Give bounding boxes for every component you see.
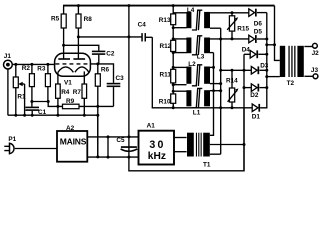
node xC-D5wire bbox=[219, 38, 222, 41]
node R15 bottom bbox=[231, 37, 234, 40]
svg-text:R11: R11 bbox=[160, 72, 172, 79]
node plate-R5 bbox=[62, 44, 65, 47]
node upper-V1line bbox=[127, 135, 130, 138]
node lower-V1line bbox=[127, 156, 130, 159]
node HTline-44.8 bbox=[273, 43, 276, 46]
svg-text:30: 30 bbox=[149, 139, 165, 151]
node bus-D4 bbox=[265, 53, 268, 56]
wire T1 secondary top step bbox=[210, 53, 214, 136]
inductor L1 bbox=[173, 88, 210, 116]
svg-text:R2: R2 bbox=[22, 65, 31, 72]
svg-text:C2: C2 bbox=[106, 50, 115, 57]
plug P1 bbox=[4, 136, 16, 154]
svg-text:R10: R10 bbox=[159, 98, 171, 105]
capacitor C3 bbox=[107, 75, 124, 106]
svg-text:A1: A1 bbox=[147, 123, 156, 130]
node bus-D3 bbox=[265, 69, 268, 72]
wire T1 secondary mid tap bbox=[210, 144, 244, 146]
node rail-L3top bbox=[172, 37, 175, 40]
wire ground bus bbox=[8, 114, 98, 116]
node xC-D1wire bbox=[219, 106, 222, 109]
node xC-L1wire bbox=[219, 89, 222, 92]
wire L3 bottom to step line bbox=[210, 52, 214, 54]
svg-text:R8: R8 bbox=[84, 16, 93, 23]
node bus-D2 bbox=[265, 86, 268, 89]
node anodebus-D3 bbox=[243, 69, 246, 72]
connector J1 bbox=[4, 53, 13, 69]
svg-text:T2: T2 bbox=[287, 80, 295, 87]
node bus-R4 bbox=[56, 114, 59, 117]
resistor R10 bbox=[159, 94, 176, 108]
node bus-R6lead bbox=[96, 114, 99, 117]
svg-text:J1: J1 bbox=[4, 53, 12, 60]
wire bus drop to mains lower bbox=[97, 115, 99, 157]
potentiometer R1 bbox=[13, 64, 26, 115]
wire A1 to T1 primary top bbox=[174, 137, 187, 139]
node anodebus-D2 bbox=[243, 86, 246, 89]
wire P1 to MAINS bbox=[15, 148, 57, 150]
svg-text:C5: C5 bbox=[116, 137, 125, 144]
svg-text:P1: P1 bbox=[8, 136, 16, 143]
svg-text:C4: C4 bbox=[138, 21, 147, 28]
node R8-plate junction bbox=[77, 35, 80, 38]
inductor L3 bbox=[173, 36, 210, 61]
node grid-R2 bbox=[30, 63, 33, 66]
node grid-C2-R6 bbox=[96, 62, 99, 65]
wire L3 top to R15 D5 bbox=[210, 38, 249, 40]
svg-text:D6: D6 bbox=[254, 21, 263, 28]
diode D2 bbox=[244, 84, 267, 99]
wire L2 bottom tap right bbox=[210, 83, 221, 85]
svg-text:D4: D4 bbox=[242, 46, 251, 53]
wire x108 link bbox=[107, 137, 109, 157]
resistor R2 bbox=[22, 64, 35, 101]
node J1-R1 bbox=[14, 63, 17, 66]
tube V1 envelope bbox=[55, 53, 91, 76]
tube V1 right plate bbox=[77, 37, 79, 59]
diode D4 bbox=[242, 46, 267, 58]
svg-text:A2: A2 bbox=[66, 125, 75, 132]
svg-text:kHz: kHz bbox=[148, 151, 166, 162]
wire T1 secondary bottom hook bbox=[210, 153, 221, 155]
wire J1 to grid bbox=[12, 63, 54, 65]
wire L1 top tap right bbox=[210, 90, 221, 92]
wire MAINS lower to A1 bbox=[87, 156, 138, 158]
node rail-L4bottom bbox=[172, 26, 175, 29]
capacitor C5 bbox=[116, 137, 137, 151]
wire R2C1 to R3 node bbox=[32, 101, 48, 103]
svg-text:J3: J3 bbox=[311, 67, 319, 74]
resistor R6 bbox=[95, 64, 109, 157]
tube V1 left plate bbox=[63, 45, 65, 59]
wire J1 sleeve down left rail bbox=[7, 69, 9, 115]
wire A1 to T1 primary bottom bbox=[174, 151, 187, 153]
node bus-D5 bbox=[265, 38, 268, 41]
diode D6 bbox=[249, 9, 267, 28]
node rail-L3bottom bbox=[172, 51, 175, 54]
diode D3 bbox=[221, 62, 269, 74]
resistor R8 bbox=[76, 6, 92, 37]
node L2top-step bbox=[212, 66, 215, 69]
svg-text:R3: R3 bbox=[37, 66, 46, 73]
node rail-Lcolumn bbox=[172, 4, 175, 7]
node xC-D3wire bbox=[219, 69, 222, 72]
wire R3 node down to R9 bbox=[48, 102, 62, 107]
svg-text:L3: L3 bbox=[197, 54, 205, 61]
wire T2 secondary to J2 bbox=[304, 46, 312, 48]
node bus-T2bottom bbox=[265, 75, 268, 78]
wire plate R5 to C2 bbox=[64, 45, 99, 51]
wire long vertical C4 right (V2 line) bbox=[152, 37, 252, 108]
wire MAINS upper to A1 bbox=[87, 136, 138, 138]
svg-text:R15: R15 bbox=[237, 26, 249, 33]
svg-text:MAINS: MAINS bbox=[60, 136, 87, 146]
anode bus x244 bbox=[243, 54, 245, 171]
svg-text:C3: C3 bbox=[116, 75, 125, 82]
diode D1 bbox=[252, 88, 267, 121]
inductor L2 bbox=[173, 61, 210, 86]
svg-text:R7: R7 bbox=[73, 89, 82, 96]
node bus-wiper bbox=[23, 114, 26, 117]
svg-text:L4: L4 bbox=[187, 7, 195, 14]
node V2-R10 bbox=[172, 106, 175, 109]
resistor R9 bbox=[63, 98, 114, 109]
tube V1 left cathode bbox=[58, 67, 74, 72]
node bus-R7 bbox=[83, 114, 86, 117]
tube V1 grid dashes bbox=[56, 63, 90, 65]
node grid-R3 bbox=[46, 63, 49, 66]
box A1 30kHz oscillator bbox=[139, 123, 175, 165]
trimmer R14 bbox=[226, 70, 239, 108]
wire long vertical B+ feed (V1 line) bbox=[129, 6, 244, 171]
resistor R3 bbox=[37, 64, 50, 101]
resistor R5 bbox=[51, 6, 66, 46]
resistor R4 bbox=[56, 72, 70, 115]
node rail-L2top bbox=[172, 66, 175, 69]
svg-text:R9: R9 bbox=[66, 98, 75, 105]
node R15 top bbox=[231, 11, 234, 14]
node xB-L1wire bbox=[212, 89, 215, 92]
resistor R12 bbox=[160, 40, 176, 51]
wire T2 primary bottom to bus bbox=[267, 76, 280, 78]
node mainslower-busdrop bbox=[96, 155, 99, 158]
node R2-C1 bbox=[30, 100, 33, 103]
wire L4 bottom to D5 line bbox=[210, 27, 221, 29]
node R4-R9 bbox=[56, 105, 59, 108]
svg-text:R14: R14 bbox=[226, 78, 238, 85]
wire right rail down to T2 primary tap bbox=[275, 6, 280, 61]
wire bus to HT corner bbox=[267, 44, 275, 46]
svg-text:R6: R6 bbox=[101, 66, 110, 73]
node upper-x108 bbox=[107, 135, 110, 138]
node rail-L2bottom bbox=[172, 83, 175, 86]
svg-text:J2: J2 bbox=[312, 50, 320, 57]
svg-text:D5: D5 bbox=[254, 28, 263, 35]
svg-text:T1: T1 bbox=[203, 162, 211, 169]
svg-text:D2: D2 bbox=[250, 92, 259, 99]
wire L2 top tap right bbox=[210, 66, 214, 68]
svg-text:R13: R13 bbox=[159, 17, 171, 24]
node bus-C1 bbox=[31, 114, 34, 117]
resistor R7 bbox=[73, 71, 87, 115]
svg-text:R4: R4 bbox=[61, 89, 70, 96]
node R3-C1wire bbox=[47, 100, 50, 103]
svg-text:R12: R12 bbox=[160, 43, 172, 50]
box A2 MAINS bbox=[57, 125, 87, 162]
diode D5 bbox=[249, 28, 267, 42]
node bus-R1 bbox=[14, 114, 17, 117]
tube V1 right cathode bbox=[75, 67, 89, 72]
wire T2 secondary to J3 bbox=[304, 75, 313, 77]
wire top HT rail bbox=[63, 5, 275, 7]
resistor R11 bbox=[160, 69, 176, 83]
transformer T2 bbox=[280, 46, 304, 87]
svg-text:R1: R1 bbox=[17, 94, 26, 101]
node lower-x108 bbox=[107, 156, 110, 159]
capacitor C2 bbox=[92, 50, 115, 64]
svg-text:R5: R5 bbox=[51, 15, 60, 22]
trimmer R15 bbox=[227, 13, 249, 39]
node rail-L1top bbox=[172, 90, 175, 93]
svg-text:V1: V1 bbox=[64, 80, 72, 87]
node V1line-C4wire bbox=[127, 35, 130, 38]
node rail-R8 bbox=[77, 4, 80, 7]
node R6-R9 bbox=[96, 105, 99, 108]
wire cathode bus bbox=[266, 13, 268, 88]
wire L4 top to D6 bbox=[210, 12, 249, 14]
svg-text:D1: D1 bbox=[252, 114, 261, 121]
capacitor C4 bbox=[138, 21, 153, 41]
node rail-V1line bbox=[127, 4, 130, 7]
wire R8 bottom to C4 bbox=[78, 36, 141, 38]
wire xC vertical bbox=[220, 28, 222, 154]
inductor L4 bbox=[173, 7, 210, 30]
node R14 top bbox=[231, 69, 234, 72]
node T1mid-anodebus bbox=[243, 143, 246, 146]
capacitor C1 bbox=[25, 102, 46, 117]
svg-text:L2: L2 bbox=[188, 61, 196, 68]
resistor R13 bbox=[159, 14, 176, 25]
node bus-HT bbox=[265, 43, 268, 46]
transformer T1 bbox=[187, 133, 211, 169]
svg-text:D3: D3 bbox=[260, 62, 269, 69]
connector J3 bbox=[311, 67, 319, 79]
node L2bottom-xC bbox=[219, 82, 222, 85]
wire grid to C3 bbox=[90, 64, 113, 83]
node R14 bottom bbox=[231, 106, 234, 109]
svg-text:L1: L1 bbox=[193, 110, 201, 117]
connector J2 bbox=[312, 43, 320, 56]
L column left rail bbox=[172, 6, 174, 108]
